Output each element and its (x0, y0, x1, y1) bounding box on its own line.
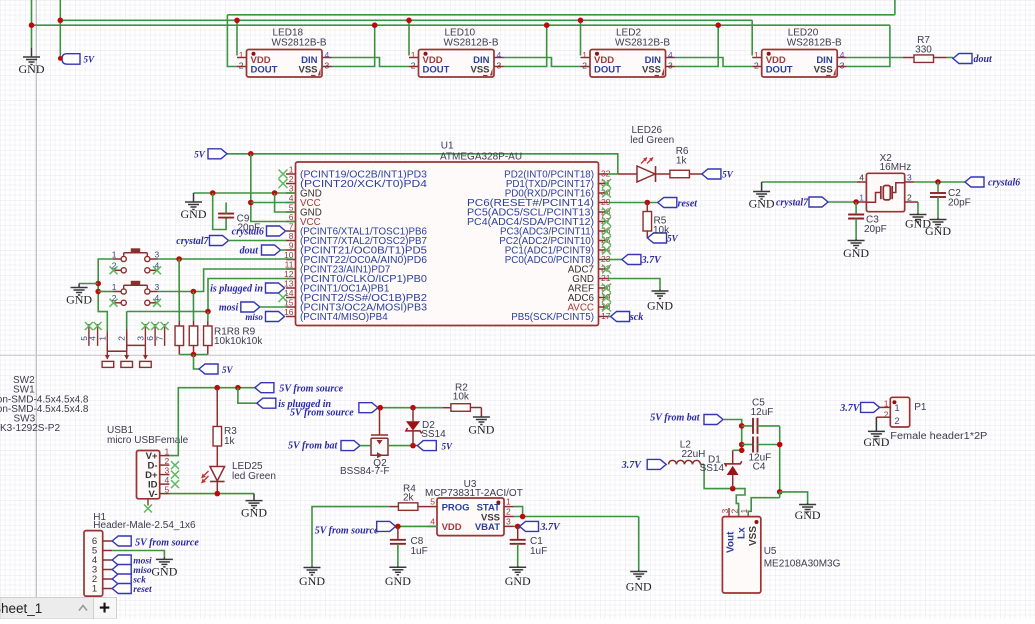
svg-text:led Green: led Green (232, 471, 276, 482)
svg-text:2: 2 (289, 174, 294, 184)
svg-text:4: 4 (668, 50, 673, 60)
svg-text:crystal7: crystal7 (776, 198, 809, 209)
svg-text:VSS: VSS (748, 526, 759, 546)
svg-text:2: 2 (730, 509, 740, 514)
svg-text:2: 2 (165, 456, 170, 466)
svg-text:5: 5 (430, 497, 435, 507)
svg-text:6: 6 (289, 212, 294, 222)
svg-text:micro USBFemale: micro USBFemale (107, 435, 189, 446)
svg-text:Vout: Vout (726, 531, 737, 553)
svg-text:WS2812B-B: WS2812B-B (787, 38, 842, 49)
svg-text:13: 13 (284, 279, 294, 289)
svg-text:DOUT: DOUT (594, 65, 621, 76)
svg-text:5V: 5V (194, 149, 206, 159)
svg-text:1uF: 1uF (411, 546, 428, 557)
svg-text:GND: GND (19, 62, 45, 76)
svg-text:2: 2 (884, 410, 889, 420)
svg-text:1: 1 (112, 250, 117, 260)
svg-text:5: 5 (289, 203, 294, 213)
svg-text:VDD: VDD (442, 522, 462, 533)
svg-text:1k: 1k (676, 156, 688, 167)
svg-text:10k10k10k: 10k10k10k (214, 336, 263, 347)
svg-text:VSS: VSS (298, 65, 317, 76)
svg-text:1: 1 (859, 193, 864, 203)
svg-text:3: 3 (840, 61, 845, 71)
svg-text:4: 4 (325, 50, 330, 60)
svg-text:1uF: 1uF (530, 546, 547, 557)
svg-text:PB5(SCK/PCINT5): PB5(SCK/PCINT5) (511, 312, 594, 323)
svg-text:GND: GND (626, 580, 652, 594)
svg-text:3.7V: 3.7V (540, 522, 562, 533)
svg-text:4: 4 (155, 293, 160, 303)
svg-text:ATMEGA328P-AU: ATMEGA328P-AU (440, 151, 522, 162)
svg-text:11: 11 (285, 260, 294, 270)
svg-text:7: 7 (155, 336, 165, 341)
svg-text:reset: reset (133, 585, 152, 595)
svg-text:5V from bat: 5V from bat (650, 413, 700, 424)
svg-text:2: 2 (239, 61, 244, 71)
svg-text:GND: GND (505, 574, 531, 588)
svg-text:(PCINT4/MISO)PB4: (PCINT4/MISO)PB4 (300, 312, 388, 323)
svg-text:5V from source: 5V from source (290, 408, 354, 419)
svg-text:3.7V: 3.7V (839, 403, 861, 414)
svg-text:1: 1 (289, 165, 294, 175)
svg-text:miso: miso (245, 312, 263, 322)
svg-text:WS2812B-B: WS2812B-B (272, 38, 327, 49)
svg-text:GND: GND (795, 508, 821, 522)
svg-text:1: 1 (754, 50, 759, 60)
svg-text:2: 2 (582, 61, 587, 71)
svg-text:1: 1 (582, 50, 587, 60)
svg-text:20pF: 20pF (864, 224, 887, 235)
svg-text:Sheet_1: Sheet_1 (0, 601, 42, 616)
svg-text:is plugged in: is plugged in (210, 284, 263, 295)
svg-text:2: 2 (112, 261, 117, 271)
svg-text:5V: 5V (722, 170, 734, 180)
svg-text:3.7V: 3.7V (621, 460, 643, 471)
svg-text:6: 6 (145, 336, 155, 341)
svg-text:V-: V- (149, 489, 158, 500)
svg-text:crystal7: crystal7 (176, 236, 209, 247)
svg-text:1: 1 (411, 50, 416, 60)
svg-text:3: 3 (135, 336, 145, 341)
svg-text:GND: GND (843, 246, 869, 260)
svg-text:DOUT: DOUT (766, 65, 793, 76)
svg-text:3: 3 (155, 250, 160, 260)
svg-text:crystal6: crystal6 (232, 227, 264, 238)
svg-text:SS14: SS14 (700, 463, 725, 474)
svg-text:5V from bat: 5V from bat (288, 441, 338, 452)
svg-text:330: 330 (915, 45, 932, 56)
svg-text:4: 4 (289, 193, 294, 203)
svg-text:4: 4 (155, 261, 160, 271)
svg-text:3: 3 (497, 61, 502, 71)
svg-text:miso: miso (133, 566, 152, 576)
svg-text:1: 1 (92, 584, 97, 595)
svg-text:GND: GND (241, 506, 267, 520)
svg-text:1: 1 (894, 403, 899, 414)
svg-text:1k: 1k (224, 436, 236, 447)
svg-text:P1: P1 (914, 402, 927, 413)
svg-text:14: 14 (284, 288, 294, 298)
svg-text:3: 3 (325, 61, 330, 71)
svg-text:sck: sck (132, 576, 146, 586)
svg-text:VSS: VSS (642, 65, 661, 76)
svg-text:5V from source: 5V from source (315, 525, 379, 536)
svg-text:5V from source: 5V from source (279, 383, 343, 394)
svg-text:reset: reset (678, 199, 699, 210)
svg-text:GND: GND (181, 207, 207, 221)
svg-text:dout: dout (974, 54, 994, 65)
svg-text:12uF: 12uF (751, 407, 774, 418)
svg-text:DOUT: DOUT (251, 65, 278, 76)
svg-text:4: 4 (165, 475, 170, 485)
svg-text:PROG: PROG (442, 502, 470, 513)
svg-text:2: 2 (411, 61, 416, 71)
svg-text:2: 2 (112, 293, 117, 303)
svg-text:5: 5 (165, 484, 170, 494)
svg-text:GND: GND (863, 435, 889, 449)
svg-text:4: 4 (430, 516, 435, 526)
svg-text:5V: 5V (442, 441, 454, 451)
svg-text:U1: U1 (441, 141, 454, 152)
svg-text:U5: U5 (764, 546, 777, 557)
svg-text:5V: 5V (222, 365, 234, 375)
svg-text:20pF: 20pF (948, 198, 971, 209)
svg-text:led Green: led Green (630, 135, 674, 146)
svg-text:2: 2 (907, 193, 912, 203)
svg-text:4: 4 (497, 50, 502, 60)
svg-text:1: 1 (97, 336, 107, 341)
svg-text:GND: GND (66, 293, 92, 307)
svg-text:5V from source: 5V from source (135, 538, 199, 549)
svg-text:GND: GND (905, 217, 931, 231)
svg-text:3: 3 (506, 517, 511, 527)
svg-text:GND: GND (647, 299, 673, 313)
svg-text:sck: sck (629, 312, 643, 323)
svg-text:GND: GND (299, 574, 325, 588)
svg-text:Female header1*2P: Female header1*2P (890, 431, 987, 442)
svg-text:4: 4 (88, 336, 98, 341)
svg-text:1: 1 (165, 446, 170, 456)
svg-text:ME2108A30M3G: ME2108A30M3G (764, 559, 841, 570)
svg-text:2: 2 (117, 336, 127, 341)
svg-text:1: 1 (239, 50, 244, 60)
svg-text:22uH: 22uH (682, 449, 706, 460)
svg-text:2: 2 (894, 416, 899, 427)
svg-text:9: 9 (289, 241, 294, 251)
svg-text:+: + (99, 598, 110, 619)
svg-text:12: 12 (284, 269, 294, 279)
svg-text:GND: GND (749, 197, 775, 211)
svg-text:10k: 10k (453, 391, 470, 402)
svg-text:3.7V: 3.7V (641, 255, 663, 266)
svg-text:3: 3 (289, 184, 294, 194)
svg-text:BSS84-7-F: BSS84-7-F (340, 466, 389, 477)
svg-text:VBAT: VBAT (475, 522, 500, 533)
svg-text:Header-Male-2.54_1x6: Header-Male-2.54_1x6 (93, 520, 196, 531)
svg-text:1: 1 (506, 497, 511, 507)
svg-text:10k: 10k (653, 225, 670, 236)
svg-text:3: 3 (165, 465, 170, 475)
svg-text:K3-1292S-P2: K3-1292S-P2 (0, 423, 60, 434)
svg-text:mosi: mosi (219, 303, 239, 314)
svg-text:mosi: mosi (133, 557, 152, 567)
svg-text:VSS: VSS (814, 65, 833, 76)
svg-text:SS14: SS14 (421, 429, 446, 440)
svg-text:7: 7 (289, 222, 294, 232)
svg-text:GND: GND (385, 574, 411, 588)
svg-text:2k: 2k (403, 493, 415, 504)
svg-text:3: 3 (907, 173, 912, 183)
svg-text:VSS: VSS (470, 65, 489, 76)
svg-text:GND: GND (468, 423, 494, 437)
svg-text:16: 16 (284, 307, 294, 317)
svg-text:4: 4 (859, 173, 864, 183)
svg-text:1: 1 (739, 509, 749, 514)
svg-text:3: 3 (155, 282, 160, 292)
svg-text:4: 4 (840, 50, 845, 60)
svg-text:16MHz: 16MHz (880, 162, 912, 173)
svg-text:DOUT: DOUT (423, 65, 450, 76)
svg-text:C4: C4 (753, 462, 766, 473)
svg-text:GND: GND (151, 564, 177, 578)
svg-text:Lx: Lx (737, 527, 748, 539)
svg-text:3: 3 (720, 509, 730, 514)
svg-text:1: 1 (112, 282, 117, 292)
svg-text:3: 3 (668, 61, 673, 71)
svg-text:2: 2 (754, 61, 759, 71)
svg-text:5V: 5V (84, 54, 96, 64)
svg-text:dout: dout (240, 246, 260, 257)
svg-text:WS2812B-B: WS2812B-B (444, 38, 499, 49)
svg-text:crystal6: crystal6 (988, 178, 1020, 189)
svg-text:2: 2 (506, 507, 511, 517)
svg-text:8: 8 (289, 231, 294, 241)
svg-text:WS2812B-B: WS2812B-B (615, 38, 670, 49)
